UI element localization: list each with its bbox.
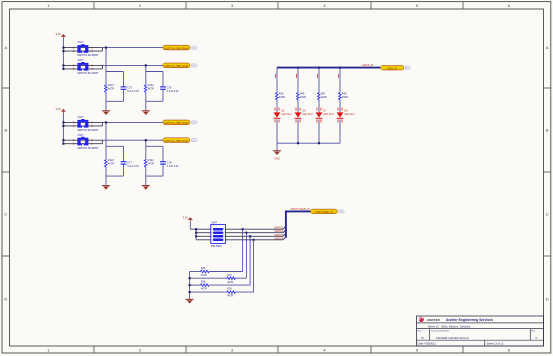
wire capacitor upper lead xyxy=(162,72,164,87)
wire drop to pulldown 3 xyxy=(249,236,251,285)
wire output SWITCH_PB1_RAW xyxy=(102,47,163,49)
wire to ground xyxy=(145,101,147,111)
wire pole 1 of SW1 xyxy=(63,47,102,49)
junction xyxy=(62,143,64,145)
wire column D5 lower segment xyxy=(276,119,278,143)
svg-text:4K7R: 4K7R xyxy=(148,162,154,165)
svg-text:C: C xyxy=(546,212,549,217)
ground xyxy=(142,111,150,115)
wire power vertical xyxy=(62,39,64,69)
wire column D7 middle segment xyxy=(318,101,320,112)
ground xyxy=(102,186,110,190)
svg-text:SWD01: SWD01 xyxy=(274,226,283,230)
junction xyxy=(189,277,191,279)
offpage port for SWITCH_PB3_RAW xyxy=(192,121,198,124)
zone tick left xyxy=(2,87,9,89)
wire feed to DIP pin 2 xyxy=(196,232,211,234)
company logo xyxy=(419,317,441,322)
switch SW4 SWITCH-PA-DPDT xyxy=(73,133,99,150)
net label SWITCH_PB3_RAW xyxy=(163,120,190,125)
title block divider doc/rev xyxy=(529,329,531,341)
zone tick bottom xyxy=(185,346,187,353)
svg-text:C77: C77 xyxy=(127,161,132,164)
zone tick right xyxy=(544,87,551,89)
zone tick bottom xyxy=(462,346,464,353)
svg-text:3.3V: 3.3V xyxy=(183,215,189,219)
offpage port for SWITCH_PB2_RAW xyxy=(192,64,198,67)
junction xyxy=(195,228,197,230)
wire column D8 lower segment xyxy=(339,119,341,143)
zone tick right xyxy=(544,171,551,173)
wire capacitor upper lead xyxy=(123,146,125,161)
wire DIP output SWD02 xyxy=(225,232,283,234)
wire resistor upper lead xyxy=(105,72,107,84)
junction bus top xyxy=(339,67,341,69)
net label SWITCH_PB4_RAW xyxy=(163,138,190,143)
title block outline xyxy=(416,316,543,346)
LED D6 LED Red xyxy=(295,108,313,123)
wire pole 2 of SW1 xyxy=(63,50,102,52)
junction xyxy=(145,64,147,66)
wire feed to DIP pin 4 xyxy=(196,239,211,241)
wire column D6 middle segment xyxy=(297,101,299,112)
svg-text:0.1uF 6.3V: 0.1uF 6.3V xyxy=(167,165,179,168)
zone tick bottom xyxy=(370,346,372,353)
wire pulldown row R37 left xyxy=(190,277,226,279)
svg-text:R122: R122 xyxy=(148,84,155,87)
resistor R123 4K7R xyxy=(105,159,115,169)
svg-text:SWITCH_PB2_RAW: SWITCH_PB2_RAW xyxy=(164,64,189,68)
svg-text:Anixter Engineering Services: Anixter Engineering Services xyxy=(446,318,493,322)
wire RC top rail xyxy=(106,71,124,73)
title block row separator 3 xyxy=(416,339,543,341)
junction xyxy=(105,121,107,123)
svg-text:SW?: SW? xyxy=(78,58,85,62)
svg-text:0.1uF 6.3V: 0.1uF 6.3V xyxy=(127,165,139,168)
svg-text:LED Red: LED Red xyxy=(281,113,292,116)
zone tick bottom xyxy=(93,346,95,353)
svg-text:LED Red: LED Red xyxy=(344,113,355,116)
wire pulldown row R38 right xyxy=(210,284,250,286)
wire resistor lower lead xyxy=(105,168,107,176)
junction bottom rail xyxy=(297,142,299,144)
resistor R124 4K7R xyxy=(144,159,154,169)
wire to ground xyxy=(105,101,107,111)
bus entry for SWD02 xyxy=(283,230,286,233)
wire pulldown row R36 right xyxy=(210,271,243,273)
svg-text:SW?: SW? xyxy=(211,221,218,225)
wire column D5 middle segment xyxy=(276,101,278,112)
wire tie right of SW1 xyxy=(101,48,103,52)
svg-text:R123: R123 xyxy=(108,159,115,162)
resistor R122 4K7R xyxy=(144,84,154,94)
zone tick left xyxy=(2,255,9,257)
svg-text:Sheet 12 - LEDs, Buttons, Swi: Sheet 12 - LEDs, Buttons, Switches xyxy=(428,325,471,329)
zone tick top xyxy=(462,2,464,9)
wire capacitor lower lead xyxy=(162,90,164,102)
svg-text:SWD02: SWD02 xyxy=(274,229,283,233)
wire RC top rail xyxy=(146,145,163,147)
resistor R36 4K7R xyxy=(199,267,209,277)
wire drop to RC pair 2 xyxy=(145,65,147,71)
zone tick right xyxy=(544,255,551,257)
svg-text:B: B xyxy=(546,128,549,133)
svg-text:4K7R: 4K7R xyxy=(108,162,114,165)
wire tie right of SW4 xyxy=(101,140,103,144)
resistor R121 4K7R xyxy=(105,84,115,94)
wire pole 2 of SW3 xyxy=(63,125,102,127)
bus wire LEDS_B horizontal xyxy=(277,67,380,69)
wire DIP output SWD03 xyxy=(225,235,283,237)
wire drop to pulldown 1 xyxy=(242,229,244,271)
title block row separator 1 xyxy=(416,322,543,324)
wire power stem xyxy=(189,222,191,229)
junction bus top xyxy=(318,67,320,69)
junction bus top xyxy=(297,67,299,69)
wire pulldown row R38 left xyxy=(190,284,200,286)
resistor R39 4K7R xyxy=(226,288,236,298)
wire resistor lower lead xyxy=(105,94,107,102)
wire column D7 lower segment xyxy=(318,119,320,143)
ground xyxy=(142,186,150,190)
wire to ground xyxy=(145,176,147,186)
wire column D7 upper segment xyxy=(318,68,320,92)
wire feed to DIP pin 3 xyxy=(196,235,211,237)
svg-text:R37: R37 xyxy=(227,274,232,277)
svg-text:SWITCH-PA-DPDT: SWITCH-PA-DPDT xyxy=(77,54,99,57)
wire RC bottom rail xyxy=(106,175,124,177)
wire resistor upper lead xyxy=(105,146,107,158)
wire pulldown row R37 right xyxy=(236,277,246,279)
wire tie right of SW2 xyxy=(101,65,103,69)
svg-text:R45: R45 xyxy=(279,92,284,95)
svg-text:LED Red: LED Red xyxy=(302,113,313,116)
junction bottom rail xyxy=(318,142,320,144)
power symbol 3.3V P1 xyxy=(55,32,65,38)
wire pole 1 of SW3 xyxy=(63,121,102,123)
svg-text:SWD04: SWD04 xyxy=(274,236,283,240)
wire RC bottom rail xyxy=(106,100,124,102)
svg-text:R38: R38 xyxy=(201,281,206,284)
svg-text:0.1uF 6.3V: 0.1uF 6.3V xyxy=(127,90,139,93)
wire RC bottom rail xyxy=(146,100,163,102)
wire DIP output SWD01 xyxy=(225,228,283,230)
wire RC bottom rail xyxy=(146,175,163,177)
wire resistor upper lead xyxy=(145,146,147,158)
resistor R47 330R xyxy=(318,92,327,102)
wire capacitor lower lead xyxy=(123,90,125,102)
wire pole 2 of SW2 xyxy=(63,68,102,70)
capacitor C78 0.1uF 6.3V xyxy=(160,161,179,168)
svg-text:R47: R47 xyxy=(321,92,326,95)
ground xyxy=(102,111,110,115)
svg-text:R124: R124 xyxy=(148,159,155,162)
svg-text:SWD03: SWD03 xyxy=(274,233,283,237)
svg-text:4K7R: 4K7R xyxy=(148,88,154,91)
svg-text:C76: C76 xyxy=(167,87,172,90)
wire pulldown row R36 left xyxy=(190,271,200,273)
resistor R37 4K7R xyxy=(226,274,236,284)
ground GND of LED array xyxy=(273,151,281,161)
wire drop to pulldown 4 xyxy=(253,240,255,292)
bus SWITCHED_B vertical xyxy=(286,211,311,237)
svg-text:LEDS_B: LEDS_B xyxy=(387,67,397,71)
svg-text:D: D xyxy=(4,297,7,302)
zone tick top xyxy=(277,2,279,9)
svg-text:R39: R39 xyxy=(227,288,232,291)
junction xyxy=(62,125,64,127)
junction xyxy=(249,235,251,237)
wire column D8 middle segment xyxy=(339,101,341,112)
svg-text:B: B xyxy=(421,336,423,340)
svg-text:C: C xyxy=(4,212,7,217)
offpage port for LEDS_B xyxy=(405,66,411,69)
net label SWITCH_PB1_RAW xyxy=(163,45,190,50)
net label stadium LEDS_B xyxy=(381,66,404,71)
svg-text:R36: R36 xyxy=(201,267,206,270)
ground of pulldowns xyxy=(186,299,194,303)
bus entry for SWD03 xyxy=(283,233,286,236)
offpage port for SWITCHED_B xyxy=(339,210,345,213)
capacitor C76 0.1uF 6.3V xyxy=(160,87,179,94)
junction xyxy=(62,47,64,49)
LED D7 LED Red xyxy=(316,108,334,123)
junction xyxy=(252,239,254,241)
pin 1 tick of R46 xyxy=(295,74,298,78)
wire DIP output SWD04 xyxy=(225,239,283,241)
bus entry for SWD04 xyxy=(283,237,286,240)
title block divider date/sheet xyxy=(484,340,486,346)
zone tick top xyxy=(93,2,95,9)
svg-text:Sheet 12 of 12: Sheet 12 of 12 xyxy=(487,341,504,345)
wire RC top rail xyxy=(106,145,124,147)
svg-text:C75: C75 xyxy=(127,87,132,90)
power symbol 3.3V P2 xyxy=(55,107,65,113)
wire tie right of SW3 xyxy=(101,122,103,126)
net label SWITCH_PB2_RAW xyxy=(163,63,190,68)
wire pole 1 of SW4 xyxy=(63,139,102,141)
wire output SWITCH_PB4_RAW xyxy=(102,139,163,141)
wire RC top rail xyxy=(146,71,163,73)
wire resistor lower lead xyxy=(145,168,147,176)
svg-text:SWITCH-PA-DPDT: SWITCH-PA-DPDT xyxy=(77,147,99,150)
junction xyxy=(242,228,244,230)
pin 1 tick of R45 xyxy=(274,74,277,78)
switch SW1 SWITCH-PA-DPDT xyxy=(73,40,99,57)
power symbol 3.3V P3 xyxy=(183,215,193,222)
svg-text:R48: R48 xyxy=(342,92,347,95)
wire pole 1 of SW2 xyxy=(63,64,102,66)
svg-text:R46: R46 xyxy=(300,92,305,95)
wire resistor upper lead xyxy=(145,72,147,84)
svg-text:4K7R: 4K7R xyxy=(227,281,233,284)
junction xyxy=(62,50,64,52)
capacitor C77 0.1uF 6.3V xyxy=(121,161,140,168)
wire power vertical xyxy=(62,113,64,143)
junction xyxy=(195,232,197,234)
svg-text:SWITCH_PB4_RAW: SWITCH_PB4_RAW xyxy=(164,139,189,143)
title block divider size/doc xyxy=(429,329,431,341)
zone tick top xyxy=(370,2,372,9)
svg-text:ANIXER-1227ET-SCH-C: ANIXER-1227ET-SCH-C xyxy=(436,336,470,340)
svg-text:SWITCH_PB1_RAW: SWITCH_PB1_RAW xyxy=(164,46,189,50)
wire column D6 upper segment xyxy=(297,68,299,92)
wire pulldown common vertical xyxy=(189,272,191,300)
svg-text:SWITCH-PA-DPDT: SWITCH-PA-DPDT xyxy=(77,72,99,75)
svg-text:SWITCH_PB3_RAW: SWITCH_PB3_RAW xyxy=(164,121,189,125)
pin 1 tick of R47 xyxy=(316,74,319,78)
wire drop to RC pair 2 xyxy=(145,140,147,146)
switch SW3 SWITCH-PA-DPDT xyxy=(73,115,99,132)
junction xyxy=(245,232,247,234)
svg-text:3.3V: 3.3V xyxy=(55,32,61,36)
svg-text:330R: 330R xyxy=(300,96,306,99)
zone tick bottom xyxy=(277,346,279,353)
net label stadium SWITCHED_B xyxy=(311,209,338,214)
svg-text:SWITCH-PA-DPDT: SWITCH-PA-DPDT xyxy=(77,129,99,132)
resistor R48 330R xyxy=(339,92,348,102)
wire resistor lower lead xyxy=(145,94,147,102)
svg-text:0.1uF 6.3V: 0.1uF 6.3V xyxy=(167,90,179,93)
wire drop to pulldown 2 xyxy=(245,233,247,279)
junction xyxy=(62,139,64,141)
wire column D8 upper segment xyxy=(339,68,341,92)
svg-text:LEDS_B: LEDS_B xyxy=(362,63,373,67)
junction xyxy=(189,291,191,293)
resistor R46 330R xyxy=(297,92,306,102)
svg-text:A: A xyxy=(4,45,7,50)
wire to ground xyxy=(105,176,107,186)
svg-text:SWITCHED_B: SWITCHED_B xyxy=(315,210,332,214)
svg-text:4K7R: 4K7R xyxy=(201,274,207,277)
svg-text:Document Number: Document Number xyxy=(431,329,450,332)
svg-text:SW?: SW? xyxy=(78,115,85,119)
offpage port for SWITCH_PB1_RAW xyxy=(192,46,198,49)
svg-text:C78: C78 xyxy=(167,161,172,164)
pin 1 tick of R48 xyxy=(337,74,340,78)
svg-text:SW?: SW? xyxy=(78,40,85,44)
wire output SWITCH_PB3_RAW xyxy=(102,121,163,123)
svg-text:Date: 4/28/2011: Date: 4/28/2011 xyxy=(418,341,437,345)
wire capacitor lower lead xyxy=(162,165,164,177)
svg-text:ANIXTER: ANIXTER xyxy=(426,318,441,322)
junction xyxy=(145,139,147,141)
svg-text:3.3V: 3.3V xyxy=(55,107,61,111)
junction xyxy=(105,47,107,49)
svg-text:4K7R: 4K7R xyxy=(108,88,114,91)
wire pulldown row R39 left xyxy=(190,291,226,293)
wire column D5 upper segment xyxy=(276,68,278,92)
wire pole 2 of SW4 xyxy=(63,143,102,145)
resistor R38 4K7R xyxy=(199,281,209,291)
svg-text:GND: GND xyxy=(274,156,280,160)
zone tick left xyxy=(2,171,9,173)
junction xyxy=(62,64,64,66)
svg-text:330R: 330R xyxy=(342,96,348,99)
svg-text:R121: R121 xyxy=(108,84,115,87)
zone tick top xyxy=(185,2,187,9)
wire drop to RC pair 1 xyxy=(105,48,107,72)
svg-text:4K7R: 4K7R xyxy=(201,288,207,291)
title block row separator 2 xyxy=(416,328,543,330)
svg-text:B: B xyxy=(4,128,7,133)
capacitor C75 0.1uF 6.3V xyxy=(121,87,140,94)
DIP switch SW5 SW-DIP4 xyxy=(211,221,226,249)
svg-text:D: D xyxy=(546,297,549,302)
wire capacitor lower lead xyxy=(123,165,125,177)
svg-text:330R: 330R xyxy=(321,96,327,99)
svg-text:330R: 330R xyxy=(279,96,285,99)
offpage port for SWITCH_PB4_RAW xyxy=(192,139,198,142)
wire pulldown row R39 right xyxy=(236,291,253,293)
svg-text:4K7R: 4K7R xyxy=(227,295,233,298)
svg-text:LED Red: LED Red xyxy=(323,113,334,116)
wire column D6 lower segment xyxy=(297,119,299,143)
wire output SWITCH_PB2_RAW xyxy=(102,64,163,66)
LED D5 LED Red xyxy=(274,108,292,123)
wire to LED ground xyxy=(276,143,278,151)
wire capacitor upper lead xyxy=(162,146,164,161)
wire LED bottom rail xyxy=(277,142,340,144)
junction xyxy=(195,235,197,237)
wire capacitor upper lead xyxy=(123,72,125,87)
wire feed vertical xyxy=(195,229,197,240)
junction xyxy=(62,68,64,70)
switch SW2 SWITCH-PA-DPDT xyxy=(73,58,99,75)
bus entry for SWD01 xyxy=(283,226,286,229)
svg-text:SW?: SW? xyxy=(78,133,85,137)
svg-text:SW-DIP4: SW-DIP4 xyxy=(211,244,222,248)
junction xyxy=(189,284,191,286)
svg-text:SWITCHED_B: SWITCHED_B xyxy=(291,207,310,211)
svg-text:A: A xyxy=(546,45,549,50)
LED D8 LED Red xyxy=(337,108,355,123)
resistor R45 330R xyxy=(276,92,285,102)
junction xyxy=(62,121,64,123)
wire power to DIP pin 1 xyxy=(190,228,211,230)
wire drop to RC pair 1 xyxy=(105,122,107,146)
